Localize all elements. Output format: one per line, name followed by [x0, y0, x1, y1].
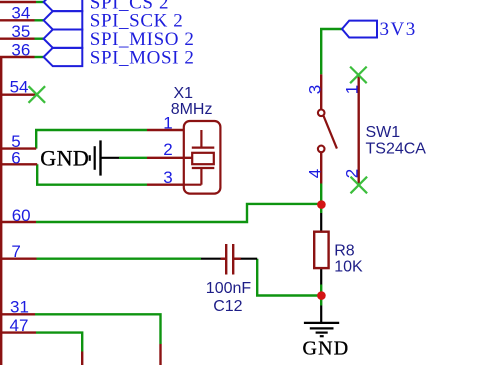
svg-text:C12: C12: [213, 298, 242, 315]
svg-text:4: 4: [305, 169, 324, 178]
svg-text:8MHz: 8MHz: [171, 101, 213, 118]
svg-text:1: 1: [343, 85, 362, 94]
svg-text:10K: 10K: [334, 258, 363, 275]
svg-text:47: 47: [10, 316, 29, 335]
svg-text:100nF: 100nF: [206, 280, 252, 297]
svg-text:2: 2: [343, 169, 362, 178]
svg-text:60: 60: [12, 206, 31, 225]
svg-text:6: 6: [11, 149, 20, 168]
svg-text:3: 3: [163, 168, 172, 187]
svg-text:SW1: SW1: [366, 124, 401, 141]
svg-text:35: 35: [11, 22, 30, 41]
svg-text:3: 3: [305, 85, 324, 94]
svg-text:2: 2: [163, 140, 172, 159]
svg-text:SPI_MOSI 2: SPI_MOSI 2: [90, 47, 195, 68]
svg-text:GND: GND: [303, 338, 350, 360]
svg-text:54: 54: [10, 78, 29, 97]
svg-text:GND: GND: [40, 146, 89, 171]
svg-text:31: 31: [10, 298, 29, 317]
svg-text:R8: R8: [334, 242, 355, 259]
svg-text:36: 36: [11, 40, 30, 59]
svg-text:3V3: 3V3: [380, 19, 417, 40]
svg-text:X1: X1: [174, 85, 194, 102]
svg-text:TS24CA: TS24CA: [366, 140, 427, 157]
svg-text:34: 34: [11, 4, 30, 23]
svg-text:7: 7: [11, 242, 20, 261]
